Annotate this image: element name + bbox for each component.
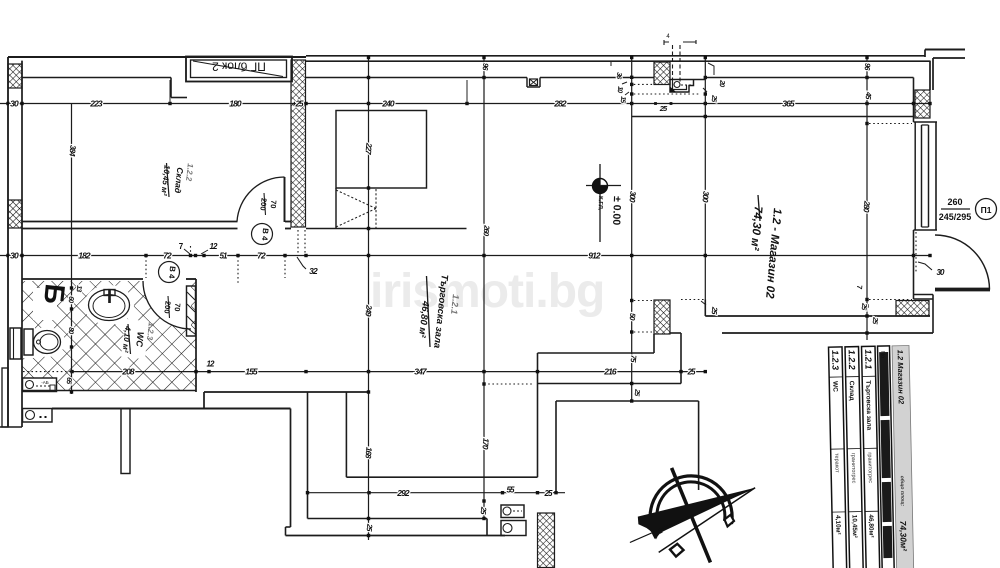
WC door leaf hatched xyxy=(187,286,196,336)
bottom wall left section xyxy=(52,408,291,410)
WC right wall xyxy=(195,279,197,392)
wall column hatched bottom right entrance xyxy=(896,301,929,317)
wall left bottom cap xyxy=(0,426,22,428)
door tag B4 WC xyxy=(159,262,180,283)
wall top inner face storage xyxy=(22,77,171,79)
storage room bottom wall xyxy=(22,221,238,223)
appliance box 2 xyxy=(501,521,526,536)
svg-text:25: 25 xyxy=(543,489,553,498)
svg-text:46,80м²: 46,80м² xyxy=(867,514,875,538)
door tag B4 storage xyxy=(252,224,273,245)
north arrow compass xyxy=(630,468,755,563)
svg-text:К.ГЛ.: К.ГЛ. xyxy=(596,196,603,211)
entrance door swing arc xyxy=(935,235,990,290)
dimension line middle xyxy=(0,255,930,257)
wall column hatched top-left xyxy=(8,64,22,88)
washbasin xyxy=(89,290,130,321)
wall top right step xyxy=(925,49,965,51)
wall top inner face shop xyxy=(306,77,527,79)
appliance box 1 xyxy=(501,505,524,518)
wall niche fixture top xyxy=(670,80,694,93)
dimension vertical storage xyxy=(368,57,370,540)
bottom wall right section xyxy=(705,315,930,317)
svg-text:7: 7 xyxy=(179,242,184,251)
leader 32 xyxy=(297,257,306,269)
wall column hatched mid right xyxy=(654,300,670,334)
toilet xyxy=(24,329,33,355)
svg-text:240: 240 xyxy=(381,99,395,109)
dimension line bottom xyxy=(308,492,566,494)
shaft flag symbol xyxy=(335,188,337,229)
svg-text:30: 30 xyxy=(10,99,19,109)
svg-text:В 4: В 4 xyxy=(167,266,177,280)
svg-text:1.2.1: 1.2.1 xyxy=(863,349,873,369)
bottom outer wall xyxy=(286,535,506,537)
svg-text:200: 200 xyxy=(162,301,172,314)
svg-text:1.2.1: 1.2.1 xyxy=(449,294,461,315)
svg-text:70: 70 xyxy=(173,303,183,312)
step right of column xyxy=(670,332,681,334)
svg-text:WC: WC xyxy=(831,381,838,392)
svg-text:4,10м²: 4,10м² xyxy=(834,515,841,536)
level marker 0.00 xyxy=(599,164,601,242)
wall column hatched bottom center xyxy=(538,513,555,568)
svg-text:25: 25 xyxy=(686,368,696,377)
dimension vertical shop left xyxy=(631,57,633,401)
svg-text:1.2.2: 1.2.2 xyxy=(847,350,857,370)
svg-text:180: 180 xyxy=(229,99,242,109)
svg-text:72: 72 xyxy=(257,251,266,261)
left wall lower box xyxy=(2,368,8,427)
WC counter box xyxy=(23,378,57,392)
storage door swing arc xyxy=(237,177,285,222)
svg-text:В 4: В 4 xyxy=(260,228,270,242)
svg-text:общо площ:: общо площ: xyxy=(899,476,907,507)
WC door swing arc xyxy=(143,281,191,329)
entrance window frame P1 xyxy=(914,121,938,123)
neighbour block label box PG blok 2 xyxy=(186,57,292,82)
dimension vertical shop right xyxy=(704,57,706,300)
svg-text:182: 182 xyxy=(78,251,91,261)
svg-text:10,45м²: 10,45м² xyxy=(851,515,859,539)
svg-text:-АБ: -АБ xyxy=(41,380,49,385)
window dotted xyxy=(915,232,917,272)
svg-text:216: 216 xyxy=(603,367,617,377)
svg-text:72: 72 xyxy=(163,251,172,261)
dimension line lower xyxy=(23,371,72,373)
dotted entrance lower xyxy=(681,299,705,301)
WC top wall xyxy=(22,278,143,280)
svg-text:25: 25 xyxy=(294,99,304,108)
wall column hatched top right xyxy=(915,90,930,118)
dimension vertical entrance xyxy=(866,57,868,340)
svg-text:282: 282 xyxy=(553,99,567,109)
wall column hatched left mid xyxy=(8,200,22,228)
dotted extensions center xyxy=(634,83,654,85)
lower right wall xyxy=(556,400,699,402)
lower appliance box left xyxy=(23,409,53,423)
dimension line top xyxy=(0,103,930,105)
svg-text:± 0.00: ± 0.00 xyxy=(610,196,623,226)
wall inner face continue xyxy=(540,77,654,79)
svg-text:365: 365 xyxy=(782,99,795,109)
wall top outer double xyxy=(306,55,925,57)
svg-text:70: 70 xyxy=(269,200,279,209)
svg-text:Б: Б xyxy=(38,282,71,305)
entrance door leaf xyxy=(935,288,990,292)
svg-text:гранитогрес: гранитогрес xyxy=(850,453,857,484)
WC tiled floor hatch xyxy=(22,281,196,391)
svg-text:200: 200 xyxy=(258,198,268,211)
extension dotted mid xyxy=(145,256,147,278)
WC door swing white area xyxy=(143,281,191,329)
svg-text:208: 208 xyxy=(121,367,135,377)
wall left inner xyxy=(21,61,23,392)
dimension vertical left xyxy=(71,104,73,395)
bottom inner wall xyxy=(308,518,488,520)
left wall window frame xyxy=(10,328,21,359)
dimension vertical center xyxy=(483,57,485,519)
svg-text:П1: П1 xyxy=(981,205,992,215)
svg-text:30: 30 xyxy=(10,251,19,261)
construction dashed lines xyxy=(672,45,674,85)
svg-text:1.2.3: 1.2.3 xyxy=(830,350,840,370)
lower mid wall y392 xyxy=(204,391,369,393)
svg-text:WC: WC xyxy=(134,331,146,347)
dim 25b xyxy=(654,102,657,105)
svg-text:Търговска зала: Търговска зала xyxy=(864,380,872,430)
svg-text:No: No xyxy=(879,351,885,358)
legend table rotated xyxy=(829,346,914,568)
svg-text:912: 912 xyxy=(588,251,601,261)
wall left outer xyxy=(7,57,9,427)
svg-text:292: 292 xyxy=(396,488,410,498)
svg-text:Склад: Склад xyxy=(848,381,855,401)
window tag circle P1 xyxy=(976,199,997,220)
svg-text:теракот: теракот xyxy=(833,453,839,473)
svg-text:гранитогрес: гранитогрес xyxy=(866,452,873,483)
svg-text:32: 32 xyxy=(309,266,318,276)
wall inner line right section xyxy=(632,116,914,118)
wall column hatched top center xyxy=(654,62,670,85)
wall column hatched storage right xyxy=(291,60,306,227)
shop south wall step xyxy=(345,392,347,477)
svg-text:irismoti.bg: irismoti.bg xyxy=(370,265,604,318)
wall right vertical at window top xyxy=(913,78,915,123)
storage mezzanine box xyxy=(336,111,427,189)
bottom inner vertical xyxy=(307,392,309,519)
storage door leaf xyxy=(284,177,286,222)
wall stub pier xyxy=(121,409,130,474)
niche electrical box xyxy=(526,78,528,88)
wall top outer left xyxy=(8,56,306,58)
dotted entrance xyxy=(869,123,912,125)
WC bottom line xyxy=(22,390,196,392)
svg-text:74,30м²: 74,30м² xyxy=(898,521,909,553)
svg-text:223: 223 xyxy=(89,99,103,109)
svg-text:155: 155 xyxy=(245,367,258,377)
entrance threshold xyxy=(914,294,934,296)
svg-text:245/295: 245/295 xyxy=(939,212,972,222)
storage lower wall line xyxy=(306,228,467,230)
svg-text:260: 260 xyxy=(947,197,962,207)
svg-text:1.2 Магазин 02: 1.2 Магазин 02 xyxy=(896,350,906,405)
extension lines top xyxy=(169,80,171,104)
svg-text:ПГ блок 2: ПГ блок 2 xyxy=(212,60,266,74)
bottom left vertical wall xyxy=(290,409,292,528)
